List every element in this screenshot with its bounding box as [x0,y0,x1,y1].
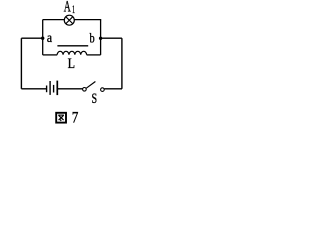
wire left branch vertical (node a up to lamp, down to coil) [42,20,44,55]
wire bottom left to battery [21,88,46,90]
wire battery to switch [57,88,82,90]
wire right edge vertical [121,38,123,89]
svg-text:A: A [64,0,71,16]
svg-text:b: b [90,30,95,45]
svg-text:1: 1 [72,2,75,16]
switch S [83,82,105,92]
lamp A1 [64,15,74,25]
svg-text:S: S [92,91,98,107]
wire node a branch down to coil [43,54,58,56]
svg-text:L: L [68,56,75,72]
wire switch to right edge [104,88,122,90]
inductor L coil [57,51,86,55]
svg-text:a: a [47,31,53,46]
wire right branch vertical (node b up to lamp, down to coil) [100,20,102,55]
wire from node a to left edge [21,37,42,39]
wire from node b to right edge [101,37,122,39]
inductor core bar [57,45,88,47]
svg-text:7: 7 [72,110,79,127]
wire top rail right of lamp [75,19,102,21]
node a [41,37,44,40]
wire coil to node b branch [87,54,101,56]
caption glyph tu (figure) [56,113,66,123]
node b [99,37,102,40]
battery cells [47,81,58,96]
wire left edge vertical [20,38,22,89]
wire top rail left of lamp [43,19,65,21]
